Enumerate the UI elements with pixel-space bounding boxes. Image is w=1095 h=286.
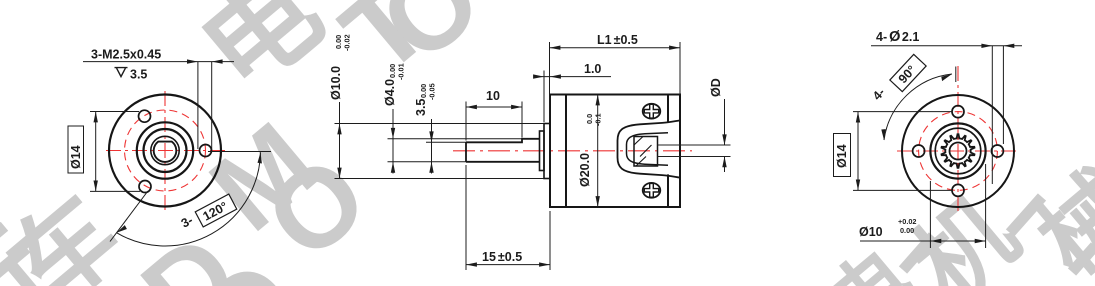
- ext line Ø10 left: [929, 181, 931, 248]
- arrow left-pointing: [930, 239, 941, 243]
- svg-text:Ø4.0: Ø4.0: [383, 79, 397, 106]
- bolt circle red: [125, 110, 206, 191]
- dim Ø14 box: [68, 126, 84, 173]
- arrow down-pointing: [391, 128, 395, 139]
- tol Ø10.0: [334, 34, 352, 51]
- ext line bottom: [90, 190, 140, 192]
- dim line Ø10: [860, 240, 986, 242]
- ext line 3.5: [426, 141, 466, 143]
- svg-text:-0.1: -0.1: [594, 113, 603, 126]
- bolt circle red: [919, 112, 998, 191]
- centerline vertical: [957, 66, 959, 212]
- RIGHTVIEW: [834, 29, 1023, 248]
- arrow right: [539, 262, 550, 266]
- svg-text:1.0: 1.0: [584, 62, 601, 76]
- dim 1.0: [536, 76, 611, 78]
- hole lower-left: [139, 181, 151, 193]
- tol Ø4.0: [388, 63, 406, 80]
- svg-text:Ø10: Ø10: [859, 225, 883, 239]
- arrow left-pointing: [212, 59, 223, 63]
- ext line hole tangent 1: [197, 62, 199, 149]
- arrow down: [337, 168, 341, 179]
- hatch lines: [634, 137, 652, 167]
- ext line 1.0: [543, 71, 545, 123]
- bearing inner circle: [151, 136, 179, 164]
- arrow down-pointing: [429, 131, 433, 142]
- arrow left: [466, 262, 477, 266]
- ext lines L1: [550, 42, 681, 120]
- dim Ø4.0 line: [392, 109, 394, 174]
- shaft collar: [540, 131, 545, 171]
- boss plate: [544, 124, 550, 179]
- screw bottom: [643, 183, 661, 198]
- ext line top: [90, 111, 139, 113]
- tol 3.5: [419, 83, 437, 100]
- arrow down: [94, 181, 98, 192]
- angle arc 3-120: [117, 152, 261, 246]
- centerline horizontal: [897, 150, 1016, 152]
- ext line hole tangent 2: [211, 62, 213, 150]
- centerline vertical: [164, 91, 166, 213]
- connector tab inner: [627, 133, 669, 166]
- dim Ø20.0 line: [597, 95, 599, 208]
- dim ØD line: [724, 99, 726, 172]
- dim 3.5 line: [431, 119, 433, 174]
- arc arrow top: [941, 74, 952, 81]
- leader bottom hole: [110, 192, 148, 242]
- svg-text:10: 10: [486, 89, 500, 103]
- shaft outline: [466, 139, 540, 162]
- svg-text:+0.02: +0.02: [898, 217, 916, 226]
- arrow up: [856, 112, 860, 123]
- hole right: [991, 145, 1003, 157]
- svg-text:15±0.5: 15±0.5: [482, 250, 522, 264]
- arc arrow lower-left: [117, 225, 127, 233]
- arrow up: [596, 95, 600, 106]
- arc arrow bottom: [881, 129, 885, 140]
- dim Ø10.0 line: [339, 102, 341, 179]
- arrow down: [596, 196, 600, 207]
- ext lines Ø10: [335, 124, 545, 179]
- arrow left-pointing: [1003, 44, 1014, 48]
- connector tab outer: [618, 120, 681, 177]
- ext lines 10: [466, 102, 522, 141]
- angle arc 4-90: [884, 74, 952, 140]
- svg-text:0.00: 0.00: [900, 226, 914, 235]
- svg-text:4-: 4-: [870, 85, 888, 103]
- ext line top: [853, 111, 952, 113]
- dim L1±0.5: [550, 47, 681, 49]
- hole right: [200, 145, 212, 157]
- depth symbol: [115, 68, 128, 77]
- inner ring: [935, 128, 981, 174]
- svg-text:3-M2.5x0.45: 3-M2.5x0.45: [91, 48, 161, 62]
- svg-text:电: 电: [178, 0, 344, 114]
- arrow down: [856, 180, 860, 191]
- screw top: [643, 104, 661, 119]
- dim 15±0.5: [466, 264, 550, 266]
- arrow left: [550, 46, 561, 50]
- tol Ø10: [898, 217, 916, 235]
- centerline horizontal: [106, 150, 229, 152]
- dim line Ø14: [857, 112, 859, 191]
- ext lines Ø4: [388, 139, 523, 162]
- arrow left: [466, 105, 477, 109]
- dim Ø14 box: [834, 134, 851, 177]
- dim line 4-Ø2.1: [871, 45, 1022, 47]
- arrow right-pointing: [187, 59, 198, 63]
- pinion gear: [942, 134, 975, 168]
- gearbox joint line: [565, 95, 567, 208]
- svg-text:L1±0.5: L1±0.5: [597, 33, 638, 47]
- arrow right-pointing: [981, 44, 992, 48]
- arrow up-pointing: [391, 162, 395, 173]
- svg-text:Ø10.0: Ø10.0: [329, 66, 343, 100]
- hole top: [952, 106, 964, 118]
- boss circle: [137, 122, 193, 178]
- hole bottom: [952, 184, 964, 196]
- svg-text:3.5: 3.5: [414, 99, 428, 116]
- hole upper-left: [139, 110, 151, 122]
- boss circle: [930, 123, 985, 178]
- ext line bottom: [853, 189, 952, 191]
- ext line hole right: [1002, 46, 1004, 144]
- svg-text:ØD: ØD: [709, 78, 723, 97]
- svg-text:Ø20.0: Ø20.0: [578, 153, 592, 187]
- arrow up: [722, 156, 726, 167]
- arrow down: [722, 134, 726, 145]
- gear hub circle: [950, 143, 967, 160]
- MIDVIEW: [329, 33, 731, 270]
- arrow right: [511, 105, 522, 109]
- arrow right-pointing: [975, 239, 986, 243]
- arrow up: [337, 124, 341, 135]
- ext lines 15: [466, 165, 550, 270]
- arrow right: [669, 46, 680, 50]
- svg-text:-0.05: -0.05: [428, 83, 437, 100]
- hole left: [913, 145, 925, 157]
- ext line right hole: [208, 151, 271, 153]
- arrow toward left: [550, 74, 561, 78]
- svg-text:Ø14: Ø14: [69, 145, 83, 169]
- motor body: [550, 95, 680, 208]
- flange outer circle: [109, 95, 221, 207]
- bearing circle: [144, 129, 187, 172]
- dim 10: [466, 106, 522, 108]
- svg-text:4-Ø2.1: 4-Ø2.1: [876, 29, 919, 45]
- shaft D-section: [154, 142, 177, 162]
- svg-text:-0.02: -0.02: [343, 34, 352, 51]
- svg-text:3.5: 3.5: [130, 68, 147, 82]
- arrow toward right: [533, 74, 544, 78]
- arrow up: [94, 112, 98, 123]
- LEFTVIEW: [68, 48, 271, 246]
- end cap line: [667, 95, 669, 208]
- terminal block: [634, 137, 658, 167]
- terminal pins: [658, 145, 731, 157]
- ext line hole left: [991, 46, 993, 184]
- leader line M2.5: [83, 61, 234, 63]
- svg-text:-0.01: -0.01: [397, 63, 406, 80]
- tol Ø20.0: [585, 113, 603, 126]
- ext line Ø10 right: [985, 164, 987, 248]
- dim line Ø14: [95, 112, 97, 192]
- rear cover circle: [902, 95, 1014, 207]
- arrow up-pointing: [429, 162, 433, 173]
- tick 90 ref: [955, 67, 957, 83]
- arc arrow top: [258, 152, 262, 163]
- centerline shaft axis: [453, 150, 692, 152]
- svg-text:Ø14: Ø14: [835, 144, 849, 168]
- label 120 box: [195, 194, 237, 227]
- label 90 box: [890, 54, 926, 91]
